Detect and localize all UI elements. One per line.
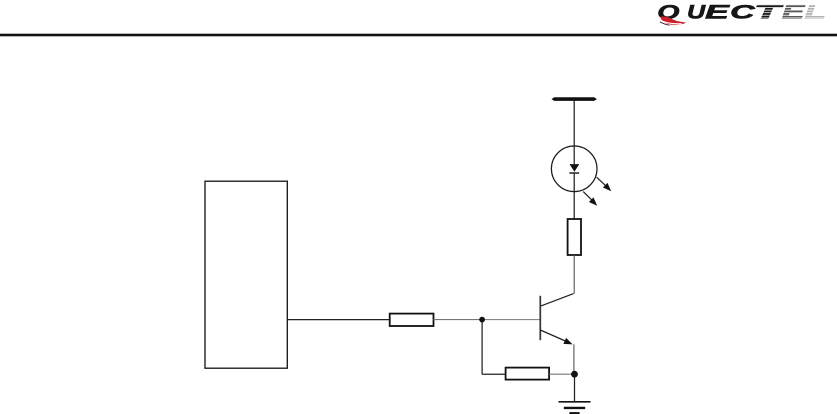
svg-text:U: U bbox=[687, 1, 706, 22]
svg-text:E: E bbox=[705, 2, 730, 23]
svg-text:C: C bbox=[730, 1, 756, 22]
svg-text:T: T bbox=[754, 2, 784, 23]
svg-text:E: E bbox=[782, 1, 805, 22]
svg-text:L: L bbox=[805, 1, 826, 23]
